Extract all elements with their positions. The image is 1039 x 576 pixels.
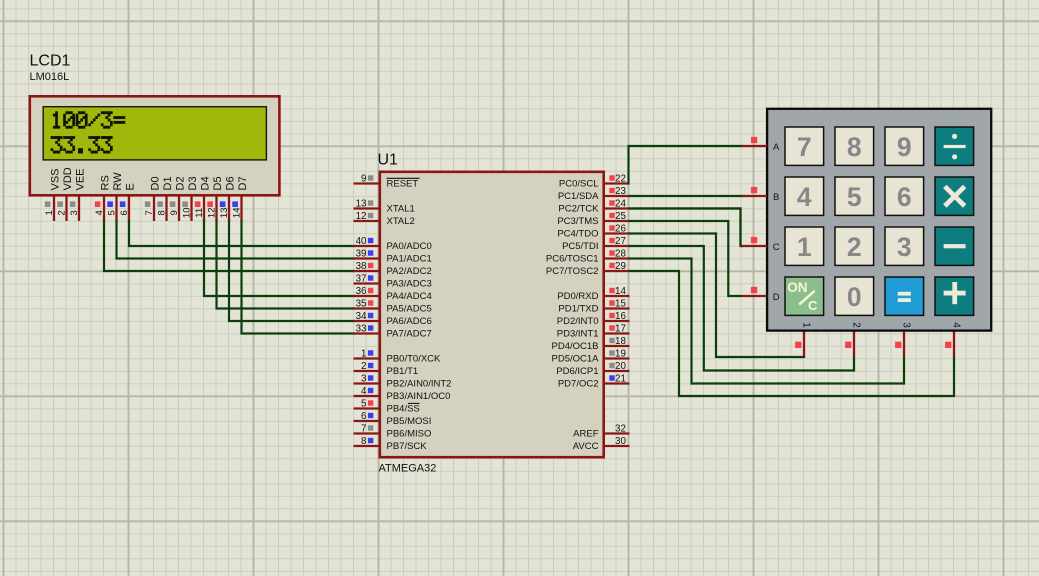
svg-text:40: 40 [356, 236, 367, 247]
svg-text:PC1/SDA: PC1/SDA [558, 191, 599, 202]
svg-text:6: 6 [361, 411, 367, 422]
svg-text:9: 9 [897, 132, 912, 162]
svg-text:1: 1 [44, 210, 55, 215]
svg-text:PC2/TCK: PC2/TCK [558, 204, 599, 215]
svg-text:9: 9 [361, 174, 366, 185]
svg-text:PA0/ADC0: PA0/ADC0 [387, 241, 432, 252]
svg-text:2: 2 [847, 232, 862, 262]
svg-text:XTAL2: XTAL2 [387, 216, 415, 227]
svg-text:VEE: VEE [75, 168, 87, 190]
svg-text:37: 37 [356, 274, 367, 285]
svg-text:8: 8 [156, 210, 167, 215]
svg-text:20: 20 [615, 361, 626, 372]
svg-text:38: 38 [356, 261, 367, 272]
svg-text:32: 32 [615, 424, 626, 435]
svg-text:D7: D7 [237, 176, 249, 190]
svg-text:4: 4 [94, 210, 105, 215]
svg-text:17: 17 [615, 324, 626, 335]
svg-text:PB1/T1: PB1/T1 [387, 366, 419, 377]
svg-text:0: 0 [847, 282, 862, 312]
svg-text:PB0/T0/XCK: PB0/T0/XCK [387, 354, 442, 365]
svg-text:11: 11 [194, 208, 205, 218]
svg-text:24: 24 [615, 199, 626, 210]
svg-text:1: 1 [361, 349, 366, 360]
svg-text:5: 5 [106, 210, 117, 215]
svg-text:39: 39 [356, 249, 367, 260]
svg-text:D: D [773, 292, 780, 303]
svg-text:8: 8 [847, 132, 862, 162]
svg-text:RS: RS [100, 175, 112, 190]
svg-text:12: 12 [206, 208, 217, 219]
svg-text:14: 14 [231, 208, 242, 219]
svg-text:8: 8 [361, 436, 367, 447]
svg-text:7: 7 [144, 210, 155, 215]
svg-text:35: 35 [356, 299, 367, 310]
svg-text:10: 10 [181, 208, 192, 219]
svg-text:PA6/ADC6: PA6/ADC6 [387, 316, 432, 327]
svg-text:PB7/SCK: PB7/SCK [387, 441, 428, 452]
svg-text:D4: D4 [200, 176, 212, 190]
svg-text:5: 5 [847, 182, 862, 212]
svg-text:13: 13 [219, 208, 230, 219]
svg-text:36: 36 [356, 286, 367, 297]
svg-text:ON: ON [787, 280, 807, 295]
svg-text:7: 7 [361, 424, 366, 435]
svg-text:23: 23 [615, 186, 626, 197]
svg-text:15: 15 [615, 299, 626, 310]
svg-text:C: C [773, 242, 780, 253]
svg-text:2: 2 [361, 361, 366, 372]
svg-text:PD1/TXD: PD1/TXD [558, 304, 598, 315]
svg-text:PA1/ADC1: PA1/ADC1 [387, 254, 432, 265]
svg-text:2: 2 [56, 210, 67, 215]
svg-text:14: 14 [615, 286, 626, 297]
svg-text:PD2/INT0: PD2/INT0 [557, 316, 599, 327]
svg-text:1: 1 [800, 322, 811, 328]
svg-text:PB3/AIN1/OC0: PB3/AIN1/OC0 [387, 391, 451, 402]
svg-text:LM016L: LM016L [30, 71, 70, 83]
svg-text:PA4/ADC4: PA4/ADC4 [387, 291, 432, 302]
svg-text:D0: D0 [150, 176, 162, 190]
svg-text:1: 1 [797, 232, 812, 262]
svg-text:16: 16 [615, 311, 626, 322]
svg-text:PA2/ADC2: PA2/ADC2 [387, 266, 432, 277]
svg-text:PA7/ADC7: PA7/ADC7 [387, 329, 432, 340]
svg-text:28: 28 [615, 249, 626, 260]
svg-text:ATMEGA32: ATMEGA32 [379, 463, 437, 475]
svg-text:PB4/SS: PB4/SS [387, 404, 420, 415]
svg-text:21: 21 [615, 374, 626, 385]
svg-text:4: 4 [361, 386, 367, 397]
svg-text:PC3/TMS: PC3/TMS [557, 216, 598, 227]
svg-text:D1: D1 [162, 176, 174, 190]
svg-text:4: 4 [797, 182, 812, 212]
svg-text:U1: U1 [378, 152, 399, 169]
svg-text:PC5/TDI: PC5/TDI [562, 241, 598, 252]
svg-text:PC4/TDO: PC4/TDO [557, 229, 598, 240]
svg-text:12: 12 [356, 211, 367, 222]
svg-text:18: 18 [615, 336, 626, 347]
svg-text:RESET: RESET [387, 179, 419, 190]
svg-text:D2: D2 [175, 176, 187, 190]
svg-text:RW: RW [112, 172, 124, 191]
svg-text:34: 34 [356, 311, 367, 322]
svg-text:22: 22 [615, 174, 626, 185]
svg-text:25: 25 [615, 211, 626, 222]
svg-text:13: 13 [356, 199, 367, 210]
svg-text:30: 30 [615, 436, 626, 447]
svg-text:A: A [773, 142, 780, 153]
svg-text:E: E [125, 183, 137, 190]
svg-text:7: 7 [797, 132, 812, 162]
svg-text:3: 3 [69, 210, 80, 215]
svg-text:LCD1: LCD1 [30, 52, 71, 69]
svg-text:VDD: VDD [62, 167, 74, 190]
svg-text:2: 2 [850, 322, 861, 328]
svg-text:PD3/INT1: PD3/INT1 [557, 329, 599, 340]
svg-text:4: 4 [950, 322, 961, 328]
svg-text:PB5/MOSI: PB5/MOSI [387, 416, 432, 427]
svg-text:6: 6 [897, 182, 912, 212]
svg-text:PD6/ICP1: PD6/ICP1 [556, 366, 598, 377]
svg-text:6: 6 [119, 210, 130, 215]
svg-text:PC6/TOSC1: PC6/TOSC1 [546, 254, 599, 265]
svg-text:26: 26 [615, 224, 626, 235]
svg-text:D3: D3 [187, 176, 199, 190]
svg-text:29: 29 [615, 261, 626, 272]
svg-text:3: 3 [361, 374, 367, 385]
svg-text:33: 33 [356, 324, 367, 335]
svg-text:PB6/MISO: PB6/MISO [387, 429, 432, 440]
svg-text:AVCC: AVCC [573, 441, 599, 452]
svg-text:19: 19 [615, 349, 626, 360]
svg-text:PC7/TOSC2: PC7/TOSC2 [546, 266, 599, 277]
svg-text:PD4/OC1B: PD4/OC1B [552, 341, 599, 352]
svg-text:PD5/OC1A: PD5/OC1A [552, 354, 600, 365]
svg-text:VSS: VSS [50, 168, 62, 190]
svg-text:27: 27 [615, 236, 626, 247]
svg-text:AREF: AREF [573, 429, 599, 440]
svg-text:3: 3 [900, 322, 911, 328]
svg-text:PB2/AIN0/INT2: PB2/AIN0/INT2 [387, 379, 452, 390]
svg-text:D6: D6 [225, 176, 237, 190]
svg-text:3: 3 [897, 232, 912, 262]
svg-text:PD0/RXD: PD0/RXD [557, 291, 598, 302]
svg-text:5: 5 [361, 399, 367, 410]
svg-text:XTAL1: XTAL1 [387, 204, 415, 215]
svg-text:D5: D5 [212, 176, 224, 190]
svg-text:B: B [773, 192, 779, 203]
svg-text:PD7/OC2: PD7/OC2 [558, 379, 599, 390]
svg-text:9: 9 [169, 210, 180, 215]
svg-text:PC0/SCL: PC0/SCL [559, 179, 599, 190]
svg-text:C: C [808, 298, 818, 313]
svg-text:PA3/ADC3: PA3/ADC3 [387, 279, 432, 290]
svg-text:PA5/ADC5: PA5/ADC5 [387, 304, 432, 315]
